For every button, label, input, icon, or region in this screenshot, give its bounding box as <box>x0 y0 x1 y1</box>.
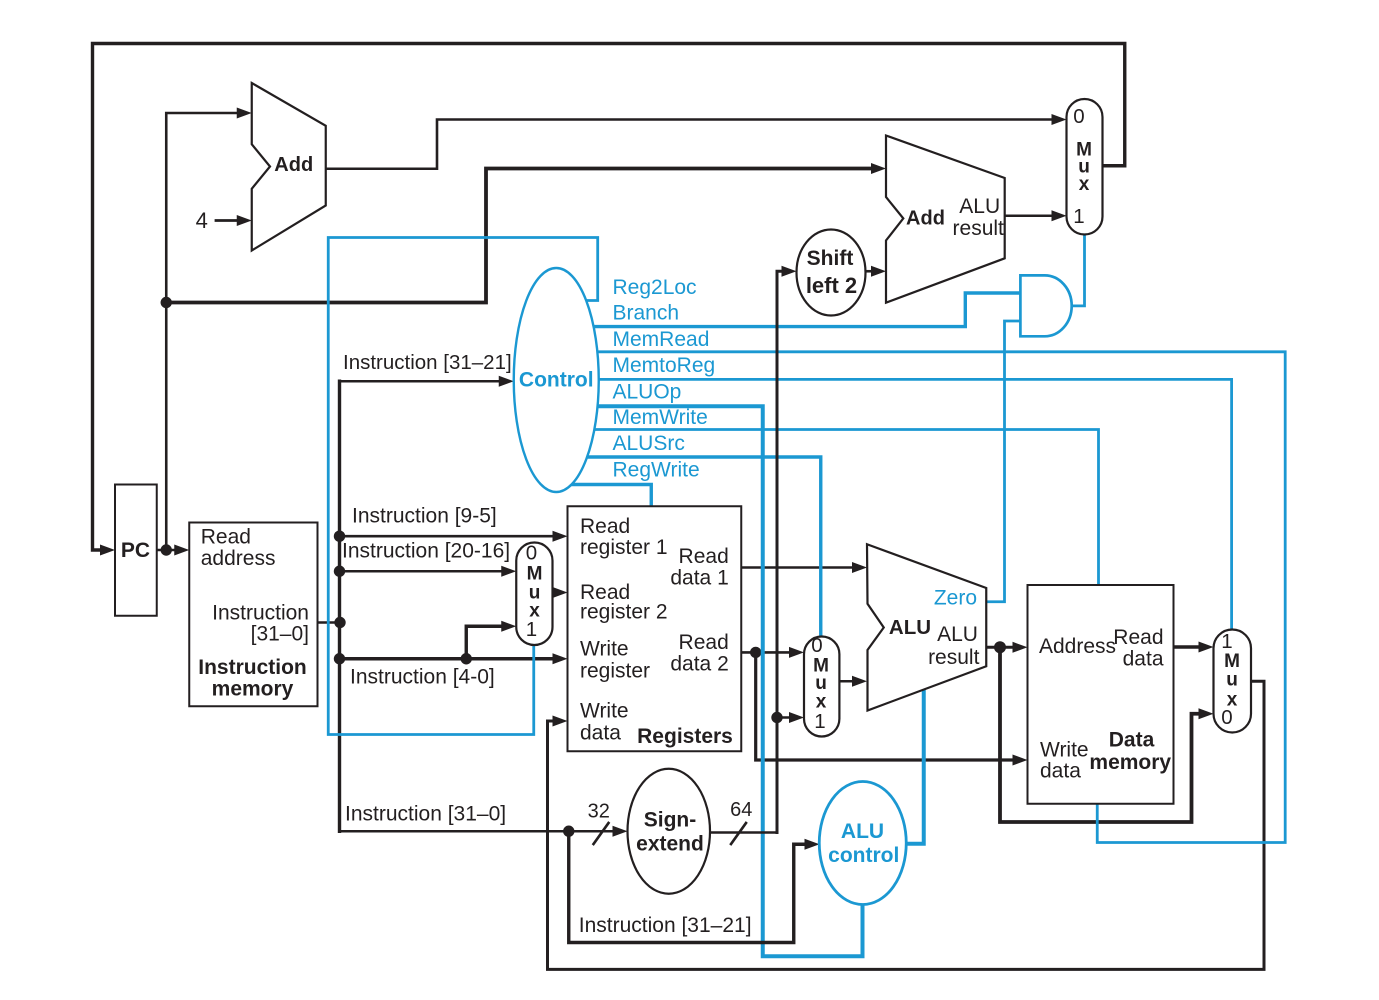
wire: instruction vertical bus <box>338 381 341 831</box>
adder Add (PC+4) <box>252 83 326 251</box>
wire: Instruction [4-0] to Write register <box>340 657 557 660</box>
wire: shift left 2 output to second adder <box>866 270 875 273</box>
wire: second adder output to top Mux input 1 <box>1005 214 1055 217</box>
wire: sign-extend value up to shift left 2 <box>777 271 785 832</box>
wire: thick PC branch to second adder top input <box>166 169 874 303</box>
svg-text:Shift: Shift <box>807 247 854 270</box>
svg-text:x: x <box>1079 174 1090 195</box>
PC register box <box>115 485 157 616</box>
wire: Instruction [9-5] to Read register 1 <box>340 535 557 538</box>
svg-text:Instruction: Instruction <box>212 602 309 625</box>
right mux capsule <box>1214 630 1252 733</box>
wire: Instruction [20-16] to register mux input 0 <box>340 570 506 573</box>
Shift left 2 ellipse <box>797 230 866 316</box>
svg-text:1: 1 <box>814 710 825 733</box>
ALU control ellipse <box>819 782 906 905</box>
svg-text:Control: Control <box>519 369 594 392</box>
wire: sign-extend output <box>710 831 777 834</box>
slash 64 bits <box>731 823 746 844</box>
wire: Zero flag to AND gate <box>986 321 1020 602</box>
svg-text:Read: Read <box>580 515 630 538</box>
svg-text:left 2: left 2 <box>806 273 857 298</box>
svg-text:MemWrite: MemWrite <box>613 406 708 429</box>
top mux capsule <box>1067 99 1103 235</box>
register input mux capsule <box>516 543 552 646</box>
wire: data memory read data to right mux input 1 <box>1174 645 1203 648</box>
wire: Instruction [31-0] to sign-extend <box>340 830 617 833</box>
svg-text:extend: extend <box>636 832 704 855</box>
node: bus junction 4-0 <box>334 653 345 664</box>
svg-text:1: 1 <box>1073 205 1084 228</box>
svg-text:Instruction [20-16]: Instruction [20-16] <box>342 540 510 563</box>
wire: first adder output to top Mux input 0 <box>326 120 1055 169</box>
wire: ALUSrc control to ALU mux select <box>556 457 821 637</box>
svg-text:RegWrite: RegWrite <box>613 459 700 482</box>
wire: Read data 2 to ALU mux input 0 <box>741 651 792 654</box>
registers box <box>568 506 742 751</box>
ALU input mux capsule <box>804 637 839 737</box>
svg-text:control: control <box>828 844 899 867</box>
svg-text:register: register <box>580 660 650 683</box>
wire: Reg2Loc control loop to register mux select <box>328 238 597 735</box>
wire: Branch control to AND gate <box>556 293 1020 327</box>
svg-text:1: 1 <box>1221 630 1232 653</box>
node: bus junction 9-5 <box>334 531 345 542</box>
svg-text:Sign-: Sign- <box>644 809 697 832</box>
svg-text:data: data <box>1123 648 1164 671</box>
svg-text:32: 32 <box>588 800 610 822</box>
svg-text:Read: Read <box>679 631 729 654</box>
svg-text:Instruction [9-5]: Instruction [9-5] <box>352 505 497 528</box>
svg-text:0: 0 <box>526 542 537 565</box>
svg-text:Registers: Registers <box>637 725 733 748</box>
svg-text:Branch: Branch <box>613 302 680 325</box>
wire: Instruction [31-21] to Control <box>340 380 503 383</box>
svg-text:register 1: register 1 <box>580 536 668 559</box>
svg-text:Instruction [31–0]: Instruction [31–0] <box>345 802 506 825</box>
node: instruction output junction <box>334 617 345 628</box>
wire: register mux output to Read register 2 <box>553 591 557 594</box>
wire: Read data 1 to ALU <box>741 566 855 569</box>
svg-text:result: result <box>953 217 1005 240</box>
svg-text:data: data <box>1040 760 1081 783</box>
svg-text:64: 64 <box>730 799 752 821</box>
svg-text:4: 4 <box>196 208 208 233</box>
node: ALU result junction <box>994 641 1006 653</box>
adder Add (branch target) <box>886 136 1005 303</box>
wire: constant 4 into first adder <box>216 219 240 222</box>
svg-text:Data: Data <box>1109 729 1155 752</box>
wire: sign-extend branch to ALU mux input 1 <box>777 716 793 719</box>
node: read data 2 junction <box>750 647 761 658</box>
wire: PC value up to first adder top input <box>166 113 240 550</box>
wire: Instruction [4-0] branch to register mux input 1 <box>466 626 505 659</box>
svg-text:register 2: register 2 <box>580 601 668 624</box>
svg-text:data 2: data 2 <box>670 653 728 676</box>
svg-text:Read: Read <box>1113 626 1163 649</box>
svg-text:ALU: ALU <box>959 195 1000 218</box>
svg-text:Zero: Zero <box>934 587 977 610</box>
svg-text:ALUOp: ALUOp <box>613 381 682 404</box>
svg-text:u: u <box>1226 670 1238 691</box>
wire: ALU result to data memory address <box>986 646 1016 649</box>
wire: ALUOp control to ALU control <box>556 406 863 956</box>
svg-text:MemRead: MemRead <box>613 328 710 351</box>
svg-text:ALU: ALU <box>841 820 884 843</box>
svg-text:memory: memory <box>1089 751 1171 774</box>
svg-text:ALUSrc: ALUSrc <box>613 432 685 455</box>
svg-text:[31–0]: [31–0] <box>251 623 309 646</box>
svg-text:result: result <box>928 646 980 669</box>
svg-text:Read: Read <box>679 545 729 568</box>
node: PC output junction <box>161 544 172 555</box>
node: 31-0 branch junction <box>563 826 574 837</box>
data memory box <box>1028 585 1174 804</box>
svg-text:memory: memory <box>212 677 294 700</box>
wire: ALU control output to ALU <box>906 690 924 844</box>
svg-text:Instruction [31–21]: Instruction [31–21] <box>579 914 752 937</box>
svg-text:Instruction: Instruction <box>198 656 307 679</box>
svg-text:0: 0 <box>1073 105 1084 128</box>
svg-text:address: address <box>201 547 276 570</box>
wire: AND gate output to top mux select <box>1072 235 1085 306</box>
wire: PC write-back loop from top Mux output around frame into PC <box>93 44 1125 551</box>
svg-text:ALU: ALU <box>889 616 931 639</box>
instruction memory box <box>189 523 317 707</box>
wire: MemWrite control to data memory top <box>556 430 1099 586</box>
wire: RegWrite control to registers <box>556 485 651 507</box>
node: 4-0 branch junction <box>461 653 472 664</box>
svg-text:ALU: ALU <box>937 623 978 646</box>
svg-text:Instruction [31–21]: Instruction [31–21] <box>343 351 512 374</box>
wire: ALU mux output to ALU <box>839 680 855 683</box>
svg-text:Write: Write <box>580 700 629 723</box>
wire: Instruction [31-21] down to ALU control <box>569 831 808 942</box>
node: sign-extend branch junction <box>771 712 782 723</box>
svg-text:Instruction [4-0]: Instruction [4-0] <box>350 666 495 689</box>
slash 32 bits <box>594 823 609 844</box>
svg-text:0: 0 <box>1221 706 1232 729</box>
wire: ALU result bypass to right mux input 0 <box>1000 647 1202 822</box>
svg-text:Add: Add <box>274 154 313 176</box>
AND gate <box>1020 275 1071 336</box>
svg-text:Write: Write <box>580 637 629 660</box>
wire: read data 2 branch to data memory write data <box>756 652 1016 760</box>
svg-text:Reg2Loc: Reg2Loc <box>613 276 697 299</box>
wire: instruction memory output to bus <box>318 621 341 624</box>
svg-text:Address: Address <box>1039 635 1116 658</box>
svg-text:1: 1 <box>526 618 537 641</box>
node: bus junction 20-16 <box>334 566 345 577</box>
svg-text:PC: PC <box>121 539 150 562</box>
svg-text:M: M <box>527 564 543 585</box>
svg-text:0: 0 <box>811 634 822 657</box>
svg-text:Add: Add <box>906 208 945 230</box>
node: PC branch junction <box>161 297 172 308</box>
svg-text:data 1: data 1 <box>670 567 728 590</box>
svg-text:Write: Write <box>1040 739 1089 762</box>
ALU <box>867 544 986 710</box>
svg-text:data: data <box>580 722 621 745</box>
wire: MemtoReg control to right mux select <box>556 379 1232 629</box>
svg-text:Read: Read <box>201 526 251 549</box>
wire: right mux output write-back to registers write data <box>548 681 1265 969</box>
wire: MemRead control to data memory bottom <box>556 352 1285 843</box>
Control ellipse <box>514 268 599 492</box>
svg-text:MemtoReg: MemtoReg <box>613 354 716 377</box>
Sign-extend ellipse <box>628 769 711 894</box>
wire: PC output to instruction memory read address <box>157 549 178 552</box>
